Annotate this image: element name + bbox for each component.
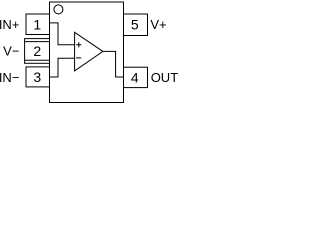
pin 4 lead box	[124, 67, 148, 87]
op-amp plus mark	[76, 42, 81, 47]
svg-text:V+: V+	[150, 17, 166, 32]
pin 2 lead fold line lower	[25, 59, 50, 61]
svg-text:V−: V−	[3, 43, 19, 58]
svg-text:IN−: IN−	[0, 70, 19, 85]
svg-text:3: 3	[33, 69, 41, 85]
wire IN- from pin 3 to inverting input	[50, 58, 75, 77]
svg-text:IN+: IN+	[0, 17, 19, 32]
op-amp U1 triangle	[75, 32, 103, 71]
op-amp minus mark	[76, 57, 81, 59]
pin 2 lead box	[25, 39, 50, 64]
wire OUT from op-amp output to pin 4	[103, 51, 124, 77]
pin 3 lead box	[26, 67, 50, 87]
svg-text:2: 2	[33, 43, 41, 59]
pin 2 lead fold line upper	[25, 41, 50, 43]
svg-text:OUT: OUT	[151, 70, 178, 85]
svg-text:4: 4	[131, 69, 139, 85]
package body U1	[50, 2, 124, 103]
pin 1 lead box	[26, 14, 50, 35]
svg-text:5: 5	[131, 16, 139, 32]
wire IN+ from pin 1 to noninverting input	[50, 23, 75, 45]
pin-1 indicator circle	[54, 5, 63, 14]
svg-text:1: 1	[33, 16, 41, 32]
pin 5 lead box	[124, 14, 148, 36]
